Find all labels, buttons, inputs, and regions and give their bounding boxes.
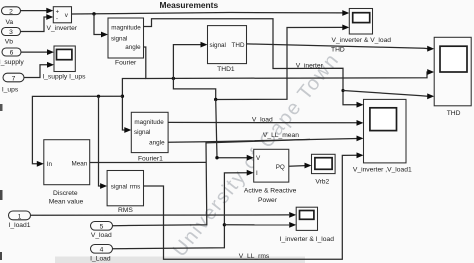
inport 4 (I_Load): [91, 245, 113, 254]
wire I_Load inport4 chain to Active & Reactive Power I input: [113, 173, 248, 249]
svg-text:V_LL_rms: V_LL_rms: [239, 253, 270, 260]
svg-text:Power: Power: [258, 197, 278, 204]
block THD1: [208, 26, 247, 64]
wire junction left to Discrete Mean In: [32, 96, 122, 164]
wire Fourier1 magnitude to scope input2 (V_load): [168, 121, 357, 123]
wire Discrete Mean output riser joining V_LL_mean: [90, 161, 207, 163]
inport 7 (I_ups): [3, 73, 24, 82]
display Vrb2: [312, 154, 336, 173]
wire I_load1 inport1 to scope I_inverter & I_load input1: [31, 214, 290, 216]
svg-text:Va: Va: [5, 19, 13, 26]
block RMS: [107, 171, 143, 206]
svg-text:angle: angle: [149, 140, 165, 147]
svg-text:3: 3: [9, 29, 13, 36]
svg-text:signal: signal: [210, 42, 226, 49]
inport 5 (V_load): [91, 222, 113, 231]
svg-text:magnitude: magnitude: [111, 25, 141, 32]
wire drop to Active & Reactive Power V input: [216, 100, 247, 158]
svg-text:RMS: RMS: [118, 207, 133, 214]
svg-text:I_ups: I_ups: [2, 87, 19, 94]
svg-text:Fourier1: Fourier1: [138, 155, 163, 162]
svg-text:Mean: Mean: [72, 160, 88, 167]
scope THD (large): [434, 37, 471, 106]
svg-text:THD: THD: [232, 42, 245, 49]
svg-text:2: 2: [9, 8, 13, 15]
wire THD1 output to THD scope input1 (THD): [247, 44, 428, 49]
wire Fourier1 angle to scope input3 (V_LL_mean): [168, 139, 357, 143]
junction angle chain: [121, 95, 124, 98]
scope V_inverter ,V_load1: [364, 99, 407, 162]
inport 1 (I_load1): [9, 211, 31, 220]
junction on V_inverter output: [92, 12, 95, 15]
block Fourier: [108, 18, 144, 58]
svg-text:4: 4: [100, 247, 104, 254]
wire inport3 to V_inverter -: [21, 17, 47, 32]
block U1 voltage measurement V_inverter: [53, 7, 71, 23]
svg-text:V_inverter ,V_load1: V_inverter ,V_load1: [353, 167, 412, 174]
wire junction down to RMS signal: [99, 96, 101, 186]
svg-text:magnitude: magnitude: [134, 119, 164, 126]
svg-text:rms: rms: [130, 183, 141, 190]
svg-text:1: 1: [18, 213, 22, 220]
svg-text:Fourier: Fourier: [115, 59, 137, 66]
svg-text:I_inverter & I_load: I_inverter & I_load: [280, 236, 335, 243]
svg-text:Measurements: Measurements: [159, 0, 218, 10]
svg-text:+: +: [56, 9, 60, 15]
svg-text:THD: THD: [447, 110, 461, 117]
svg-text:-: -: [56, 17, 58, 23]
scan artifact bottom band: [55, 257, 305, 263]
svg-text:angle: angle: [125, 44, 141, 51]
wire junction down to Fourier signal: [94, 14, 102, 35]
wire inport2 to V_inverter +: [21, 10, 47, 12]
svg-text:V_load: V_load: [252, 116, 273, 123]
svg-text:V_inverter: V_inverter: [47, 25, 78, 32]
scan artifact left edge marks: [0, 104, 3, 111]
svg-text:I: I: [256, 170, 258, 177]
wire RMS output V_LL_rms to scope V_inverter,V_load1 input4: [144, 155, 358, 259]
wire inport7 to scope I_ups: [24, 65, 48, 78]
svg-text:I_Load: I_Load: [90, 255, 111, 262]
svg-text:signal: signal: [111, 36, 127, 43]
junction I_Load chain: [223, 223, 226, 226]
block Active & Reactive Power: [254, 149, 289, 182]
scope I_supply I_ups: [54, 46, 75, 72]
svg-text:I_supply: I_supply: [0, 59, 24, 66]
svg-text:5: 5: [100, 224, 104, 231]
svg-text:I_supply I_ups: I_supply I_ups: [42, 74, 86, 81]
svg-text:Active & Reactive: Active & Reactive: [244, 188, 297, 195]
wire parallel segment of mean feed: [206, 139, 310, 143]
svg-text:signal: signal: [134, 129, 150, 136]
svg-text:7: 7: [12, 75, 16, 82]
wire riser to THD1 signal: [173, 45, 200, 79]
inport 6 (I_supply): [2, 48, 21, 56]
svg-text:V_inverter & V_load: V_inverter & V_load: [332, 37, 392, 44]
wire V_load inport5 riser: [113, 142, 207, 226]
scope I_inverter & I_load: [296, 207, 317, 230]
inport 3 (Vb): [2, 28, 21, 36]
wire branch to THD scope input3: [343, 91, 428, 97]
svg-text:PQ: PQ: [276, 164, 285, 171]
svg-text:Discrete: Discrete: [53, 190, 78, 197]
wire PQ output to Vrb2: [289, 165, 305, 168]
wire Fourier magnitude to V_inverter,V_load1 input1 (V_inerter): [144, 19, 358, 105]
svg-text:Vrb2: Vrb2: [315, 178, 329, 185]
block Fourier1: [131, 112, 168, 152]
svg-text:THD: THD: [331, 47, 345, 54]
wire inport6 to scope I_supply: [21, 51, 48, 53]
block Discrete Mean value: [44, 140, 90, 185]
svg-text:In: In: [47, 161, 53, 168]
svg-text:V_load: V_load: [91, 232, 112, 239]
svg-text:I_load1: I_load1: [9, 222, 31, 229]
svg-text:V_inerter: V_inerter: [296, 62, 324, 69]
wire branch to scope I_inverter & I_load input2: [224, 224, 289, 226]
wire V_inverter output to scope V_inverter & V_load input1: [72, 13, 343, 15]
junction on V_inerter drop: [341, 89, 344, 92]
inport 2 (Va): [2, 7, 21, 15]
wire angle chain left branch to Fourier1 signal: [122, 79, 145, 131]
scope V_inverter & V_load: [349, 9, 372, 35]
svg-text:6: 6: [10, 50, 14, 57]
svg-text:V_LL_mean: V_LL_mean: [263, 132, 299, 139]
svg-text:Mean value: Mean value: [49, 199, 84, 206]
wire z-path to scope V_inverter & V_load input2: [173, 27, 342, 99]
junction to RMS drop: [97, 95, 100, 98]
junction z-path: [214, 98, 217, 101]
svg-text:signal: signal: [111, 183, 127, 190]
svg-text:Vb: Vb: [5, 38, 13, 45]
wire Fourier angle main run to THD scope input2: [144, 47, 429, 79]
junction on angle run at THD1 riser: [172, 77, 175, 80]
junction at V input feed: [215, 156, 218, 159]
svg-text:THD1: THD1: [217, 66, 235, 73]
